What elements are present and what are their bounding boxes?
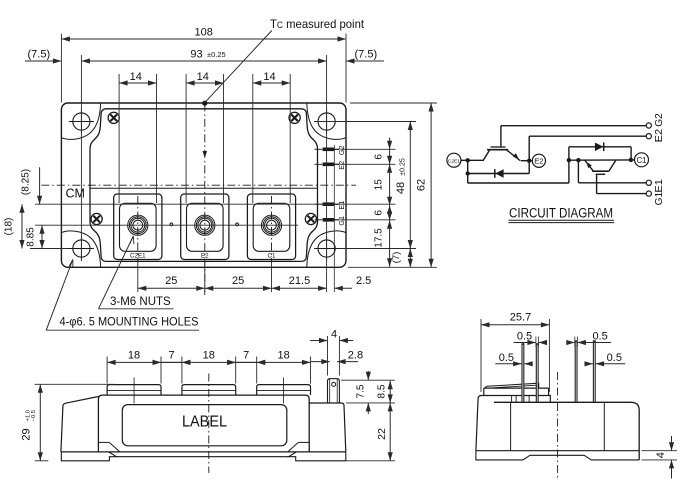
svg-text:25: 25: [165, 275, 177, 287]
svg-text:4: 4: [655, 452, 667, 458]
svg-text:0.5: 0.5: [592, 331, 607, 343]
svg-text:C1: C1: [637, 156, 647, 165]
svg-text:4-φ6. 5 MOUNTING HOLES: 4-φ6. 5 MOUNTING HOLES: [60, 317, 199, 329]
svg-text:62: 62: [416, 179, 428, 191]
svg-text:48: 48: [395, 182, 407, 194]
svg-text:6: 6: [374, 154, 385, 160]
svg-text:17.5: 17.5: [374, 228, 385, 248]
svg-text:22: 22: [376, 428, 388, 440]
svg-text:7: 7: [243, 350, 249, 362]
svg-text:25.7: 25.7: [510, 312, 531, 324]
svg-text:0.5: 0.5: [517, 331, 532, 343]
svg-text:4: 4: [331, 329, 337, 341]
svg-text:18: 18: [203, 350, 215, 362]
svg-text:G1: G1: [337, 216, 346, 226]
svg-text:3-M6 NUTS: 3-M6 NUTS: [110, 296, 171, 308]
svg-text:14: 14: [197, 71, 209, 83]
svg-text:LABEL: LABEL: [182, 414, 227, 431]
svg-text:CIRCUIT DIAGRAM: CIRCUIT DIAGRAM: [509, 206, 613, 222]
svg-text:E2: E2: [337, 161, 346, 170]
svg-text:E1: E1: [337, 201, 346, 210]
svg-text:21.5: 21.5: [289, 275, 310, 287]
svg-text:E1: E1: [653, 179, 665, 193]
svg-text:14: 14: [130, 71, 142, 83]
svg-text:15: 15: [374, 179, 385, 191]
svg-text:±0.25: ±0.25: [207, 50, 226, 59]
svg-text:7.5: 7.5: [356, 384, 367, 398]
svg-text:14: 14: [263, 71, 275, 83]
svg-text:29: 29: [21, 428, 33, 440]
svg-text:E2: E2: [653, 129, 665, 143]
svg-text:108: 108: [195, 27, 213, 39]
svg-text:(7): (7): [391, 252, 402, 264]
svg-text:CM: CM: [66, 187, 85, 201]
svg-text:93: 93: [190, 49, 202, 61]
svg-text:C2E1: C2E1: [448, 159, 461, 165]
svg-text:(7.5): (7.5): [28, 49, 51, 61]
svg-text:18: 18: [128, 350, 140, 362]
svg-text:18: 18: [277, 350, 289, 362]
svg-text:E2: E2: [534, 157, 543, 166]
svg-text:8.5: 8.5: [376, 384, 387, 398]
svg-text:2.8: 2.8: [348, 350, 363, 362]
svg-text:(8.25): (8.25): [21, 169, 32, 195]
svg-text:8.85: 8.85: [26, 227, 37, 247]
svg-text:25: 25: [232, 275, 244, 287]
svg-text:0.5: 0.5: [499, 352, 514, 364]
svg-text:G2: G2: [653, 113, 665, 127]
svg-text:6: 6: [374, 210, 385, 216]
svg-text:(7.5): (7.5): [355, 49, 378, 61]
svg-text:7: 7: [168, 350, 174, 362]
svg-text:(18): (18): [4, 218, 15, 236]
svg-text:−0.5: −0.5: [31, 410, 37, 421]
svg-text:G1: G1: [653, 192, 665, 206]
svg-text:0.5: 0.5: [607, 352, 622, 364]
svg-text:TC measured point: TC measured point: [270, 17, 365, 31]
svg-text:±0.25: ±0.25: [400, 158, 407, 176]
svg-text:2.5: 2.5: [356, 275, 371, 287]
svg-text:G2: G2: [337, 146, 346, 156]
